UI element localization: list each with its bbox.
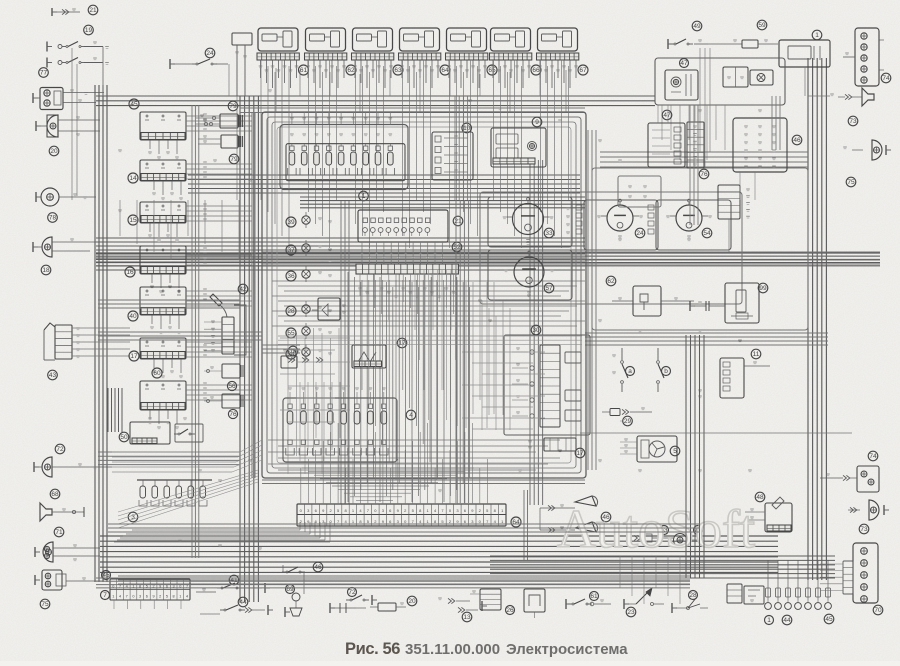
conn strip 7: [110, 579, 190, 600]
svg-text:33: 33: [545, 230, 553, 237]
bus center top band ext: [96, 252, 880, 254]
gauge 57: [488, 250, 572, 300]
circled 66: [531, 65, 541, 75]
svg-text:7: 7: [103, 592, 107, 599]
fusebox 4 lower: [283, 398, 397, 462]
circled 41: [229, 575, 239, 585]
circled 46c: [313, 562, 323, 572]
links row: [288, 357, 291, 362]
svg-text:1: 1: [767, 617, 771, 624]
relay module K3: [353, 28, 393, 51]
bundle x456 full: [455, 200, 457, 503]
bus bottom band: [100, 535, 778, 537]
gauge 24: [584, 200, 658, 250]
circled 19: [84, 25, 94, 35]
gauge 33: [488, 197, 572, 247]
circled 33: [544, 228, 554, 238]
svg-text:9: 9: [152, 595, 154, 599]
svg-text:37: 37: [287, 247, 295, 254]
circled 20b: [407, 596, 417, 606]
svg-text:70: 70: [874, 607, 882, 614]
svg-text:57: 57: [545, 285, 553, 292]
connector block 45: [140, 112, 186, 140]
block TR2: [723, 67, 748, 87]
switch a: [621, 348, 623, 360]
relay module K5: [447, 28, 487, 51]
svg-text:71: 71: [55, 529, 63, 536]
block 79b: [221, 135, 238, 148]
svg-text:73: 73: [849, 118, 857, 125]
svg-text:5: 5: [673, 448, 677, 455]
wires rb: [619, 556, 621, 588]
block 47t: [665, 70, 698, 100]
lamp 78: [41, 188, 59, 206]
circled 46r: [792, 135, 802, 145]
connector block 17: [140, 338, 186, 359]
resistor 20b: [370, 606, 378, 608]
svg-text:AutoSoft: AutoSoft: [557, 499, 755, 559]
bus right upper band: [600, 151, 808, 153]
block 50: [130, 422, 170, 444]
relay module K1: [258, 28, 298, 51]
block 77 flasher: [40, 88, 63, 110]
bundle x690 top: [689, 105, 691, 225]
bundle x775 top: [771, 96, 773, 150]
block 79a: [220, 114, 238, 128]
circled 72: [55, 444, 65, 454]
circled 63: [660, 526, 669, 535]
speaker 73t: [862, 88, 874, 106]
circled 76c: [228, 409, 237, 418]
svg-text:28: 28: [287, 308, 295, 315]
circled 34i: [286, 349, 296, 359]
circled 52: [452, 242, 462, 252]
svg-text:76: 76: [700, 171, 708, 178]
lamp 72: [42, 457, 52, 477]
circled 44b: [782, 615, 792, 625]
wire labels scattered: [118, 149, 122, 151]
lamp 63: [634, 535, 637, 540]
svg-text:68: 68: [51, 491, 59, 498]
svg-text:65: 65: [488, 67, 496, 74]
bus bottom extra: [96, 577, 690, 579]
bus left mid band2: [98, 451, 240, 453]
switch row1: [46, 42, 48, 52]
lamp ind 37: [302, 244, 310, 252]
lamp 18: [42, 237, 52, 257]
block 47r: [648, 123, 685, 167]
circled 55i: [286, 328, 296, 338]
lamp 20: [47, 115, 58, 137]
circled 68: [50, 489, 60, 499]
svg-text:45: 45: [825, 616, 833, 623]
svg-text:62: 62: [347, 67, 355, 74]
wires 77: [63, 92, 104, 94]
svg-text:19: 19: [85, 27, 93, 34]
svg-text:4: 4: [186, 595, 188, 599]
bundle x686 down: [685, 335, 687, 578]
fusebox top center: [280, 125, 408, 190]
circled 73t: [848, 116, 858, 126]
circled 71: [54, 527, 64, 537]
circled 45: [129, 99, 139, 109]
wires block 17: [186, 341, 252, 343]
connector block 15: [140, 202, 186, 223]
wire mesh horizontal: [272, 280, 585, 282]
block 9: [491, 128, 546, 167]
plug row 44: [767, 560, 769, 600]
circled a: [626, 367, 635, 376]
wires relay K3: [355, 60, 357, 224]
wire 29 ext: [580, 432, 852, 434]
svg-text:17: 17: [576, 450, 584, 457]
headlamp 46b: [575, 522, 596, 532]
svg-text:23: 23: [627, 609, 635, 616]
circled 39i: [286, 217, 296, 227]
bus y330 left: [98, 331, 262, 333]
svg-text:b: b: [664, 368, 668, 375]
bus right vertical2: [529, 160, 531, 505]
svg-text:46: 46: [793, 137, 801, 144]
battery 74t: [855, 28, 879, 86]
circled 70: [873, 605, 883, 615]
switch row2: [46, 58, 48, 68]
vertical drops top band: [119, 200, 121, 236]
lamp 71: [43, 542, 53, 562]
lamp ind 28: [302, 305, 310, 313]
wire 29: [602, 411, 610, 413]
circled 67: [578, 65, 588, 75]
switch 72c: [346, 599, 350, 601]
svg-text:44: 44: [239, 599, 247, 606]
svg-text:18: 18: [42, 267, 50, 274]
lamp 75t: [872, 140, 882, 160]
circled 45s: [102, 571, 111, 580]
circled 5: [670, 446, 680, 456]
bus y300 left: [98, 299, 240, 301]
svg-text:a: a: [628, 368, 632, 375]
circled 40: [128, 311, 138, 321]
switch 49: [667, 39, 669, 49]
svg-text:44: 44: [783, 617, 791, 624]
circled 64: [440, 65, 450, 75]
svg-text:9: 9: [535, 119, 539, 126]
cluster drop wires: [361, 242, 363, 264]
svg-text:11: 11: [753, 351, 760, 358]
switch 61: [565, 599, 567, 609]
relay module K4: [400, 28, 440, 51]
circled 13: [462, 612, 472, 622]
svg-text:24: 24: [636, 230, 644, 237]
svg-text:66: 66: [532, 67, 540, 74]
circled 75: [40, 599, 50, 609]
strip64 bends above: [302, 467, 474, 469]
connector block 60: [140, 381, 186, 410]
svg-text:79: 79: [229, 103, 237, 110]
circled 1b: [765, 616, 774, 625]
wires 20: [58, 119, 100, 121]
frame right mid: [592, 168, 808, 330]
lamp 69: [292, 593, 300, 601]
circled 26: [506, 606, 515, 615]
block 62: [633, 286, 661, 316]
wires block 14: [186, 163, 252, 165]
svg-text:17: 17: [130, 353, 138, 360]
circled 74b: [868, 451, 878, 461]
circled 44c: [238, 597, 248, 607]
bus right vertical: [807, 58, 809, 580]
svg-text:60: 60: [153, 370, 161, 377]
block 30: [504, 335, 590, 435]
circled 99: [758, 283, 768, 293]
svg-text:3: 3: [139, 595, 141, 599]
frame TR: [655, 58, 785, 105]
wires block 15: [186, 205, 252, 207]
lever 42: [210, 294, 222, 306]
switch 23b: [623, 599, 625, 609]
svg-text:99: 99: [759, 285, 767, 292]
bus top horizontal2: [240, 107, 585, 109]
block 17b: [544, 438, 576, 451]
svg-text:74: 74: [869, 453, 877, 460]
bus left outer vertical: [94, 85, 96, 582]
connector block 14: [140, 160, 186, 181]
circled 54: [702, 228, 712, 238]
circled 57: [544, 283, 554, 293]
bus y410 center: [262, 344, 300, 346]
wires block 40: [186, 290, 252, 292]
circled 37i: [286, 245, 296, 255]
circled 15: [128, 215, 138, 225]
svg-text:46: 46: [314, 564, 322, 571]
wires relay K1: [260, 60, 262, 200]
switch b: [657, 348, 659, 360]
cluster side bundle: [340, 200, 342, 504]
circled 63: [393, 65, 403, 75]
switch 24: [205, 48, 215, 58]
frame gauges: [480, 192, 742, 304]
svg-text:20: 20: [50, 148, 58, 155]
circled 46b: [601, 512, 611, 522]
circled 24g: [635, 228, 645, 238]
svg-text:59: 59: [758, 22, 766, 29]
circled 62: [606, 276, 616, 286]
circled 43: [48, 370, 58, 380]
circled 62: [346, 65, 356, 75]
svg-text:4: 4: [409, 412, 413, 419]
conn 70b: [843, 561, 853, 594]
svg-text:24: 24: [206, 50, 214, 57]
circled 1t: [812, 30, 822, 40]
svg-text:4: 4: [119, 595, 121, 599]
circled 79c: [229, 154, 239, 164]
svg-text:54: 54: [703, 230, 711, 237]
cluster wires below strip: [359, 274, 361, 296]
bus left inner vertical: [239, 96, 241, 602]
wires relay K2: [308, 60, 310, 212]
svg-text:30: 30: [532, 327, 540, 334]
terminal strip 64: [297, 504, 506, 526]
svg-text:49: 49: [693, 23, 701, 30]
extra wires: [102, 47, 104, 97]
relay module K6: [491, 28, 531, 51]
circled 56: [227, 381, 236, 390]
connector 43 strip: [55, 325, 72, 359]
circled 28i: [286, 306, 296, 316]
svg-text:6: 6: [146, 595, 148, 599]
relay 56: [222, 364, 240, 378]
wires relay K5: [449, 60, 451, 248]
svg-text:40: 40: [129, 313, 137, 320]
circled 74t: [881, 73, 891, 83]
svg-text:56: 56: [228, 383, 236, 390]
bundle x455 top: [454, 96, 456, 200]
switch 41b: [264, 583, 266, 593]
circled 29: [623, 416, 633, 426]
interior mesh: [280, 337, 350, 339]
svg-text:13: 13: [463, 614, 471, 621]
circled 23b: [626, 607, 636, 617]
connector 43 bracket: [44, 323, 55, 330]
block 58r: [718, 185, 740, 219]
lamp ind 55: [302, 327, 310, 335]
svg-text:61: 61: [590, 593, 598, 600]
svg-text:351.11.00.000: 351.11.00.000: [405, 641, 500, 658]
block 19b: [288, 346, 298, 356]
block 99: [725, 283, 759, 323]
block 5 fan: [637, 436, 677, 462]
connector strip 52: [356, 264, 458, 274]
block 1c: [727, 584, 742, 603]
svg-text:20: 20: [408, 598, 416, 605]
wire right of 64: [523, 490, 525, 560]
bus center top band2: [262, 251, 880, 253]
wires relay K7: [540, 60, 542, 212]
box 618: [618, 176, 661, 207]
circled 45b: [824, 614, 834, 624]
comp 33b: [332, 607, 356, 609]
circled 16: [125, 267, 135, 277]
center frame extra lines: [251, 112, 253, 478]
svg-text:72: 72: [56, 446, 64, 453]
svg-text:78: 78: [49, 215, 57, 222]
relay 1d: [744, 586, 764, 604]
svg-text:39: 39: [287, 219, 295, 226]
conn 76: [687, 122, 704, 168]
svg-text:48: 48: [756, 494, 764, 501]
svg-text:74: 74: [882, 75, 890, 82]
bus bottom band r: [490, 555, 835, 557]
bus x192: [191, 105, 193, 558]
connector block 40: [140, 287, 186, 315]
wires 46: [540, 507, 575, 509]
circled 1a: [359, 191, 369, 201]
svg-text:1: 1: [815, 32, 819, 39]
verticals under cluster: [361, 280, 363, 390]
circled 42: [238, 284, 248, 294]
lamp ind 39: [302, 216, 310, 224]
strip64 wires up: [300, 468, 302, 504]
circled 75t: [846, 177, 856, 187]
pins between gauges: [576, 205, 582, 210]
circled 10: [462, 123, 472, 133]
block 1t: [779, 40, 830, 67]
svg-text:10: 10: [463, 125, 471, 132]
wires block 45: [186, 115, 252, 117]
bus left mid band: [188, 174, 580, 176]
svg-text:75: 75: [847, 179, 855, 186]
band above cluster: [300, 196, 585, 198]
bus center top band: [96, 237, 585, 239]
relay module K2: [306, 28, 346, 51]
relay module K7: [538, 28, 578, 51]
capacitor 99: [694, 305, 706, 307]
wire mesh vertical: [347, 272, 349, 502]
block 48b: [765, 503, 792, 532]
svg-text:17: 17: [398, 340, 406, 347]
svg-text:72: 72: [348, 589, 356, 596]
block 11r: [720, 358, 744, 398]
bundle right of frame: [587, 130, 589, 470]
svg-text:26: 26: [506, 607, 514, 614]
svg-text:63: 63: [394, 67, 402, 74]
horizontals mid frame: [278, 335, 582, 337]
circled 47r: [662, 110, 672, 120]
instrument cluster 21: [358, 210, 448, 242]
block 26: [480, 589, 501, 610]
circled 17b: [575, 448, 585, 458]
bundle left hatch: [107, 388, 109, 432]
wires block 16: [186, 249, 252, 251]
switch 44c: [267, 605, 269, 615]
svg-text:76: 76: [229, 411, 237, 418]
circled 60: [152, 368, 162, 378]
circled 28b: [689, 591, 698, 600]
bus right mid band: [585, 332, 828, 334]
svg-text:Электросистема: Электросистема: [506, 641, 628, 658]
circled 79b: [694, 526, 703, 535]
block 10: [432, 132, 473, 180]
svg-text:47: 47: [663, 112, 671, 119]
circled 30: [531, 325, 541, 335]
switch 28b: [676, 607, 688, 609]
lamp ind 34: [302, 348, 310, 356]
speaker 68: [40, 503, 52, 521]
circled 61: [299, 65, 309, 75]
wire sw down: [71, 48, 73, 200]
wire fan strip64 left: [299, 522, 301, 530]
svg-text:7: 7: [126, 595, 128, 599]
svg-text:64: 64: [441, 67, 449, 74]
circled 17: [129, 351, 139, 361]
svg-text:69: 69: [286, 586, 294, 593]
block 27: [524, 589, 545, 612]
svg-text:16: 16: [126, 269, 134, 276]
circled 65: [487, 65, 497, 75]
svg-text:62: 62: [607, 278, 615, 285]
circled 14: [128, 173, 138, 183]
headlamp 46a: [575, 496, 596, 506]
conn 70: [853, 543, 878, 603]
svg-text:Рис. 56: Рис. 56: [345, 640, 400, 658]
svg-text:45: 45: [130, 101, 138, 108]
connector top small: [232, 33, 252, 45]
switch 46c: [282, 571, 286, 573]
connector block 16: [140, 246, 186, 274]
gauge 54: [656, 200, 731, 250]
lamp TR3: [750, 70, 773, 85]
circled 73b: [859, 524, 869, 534]
